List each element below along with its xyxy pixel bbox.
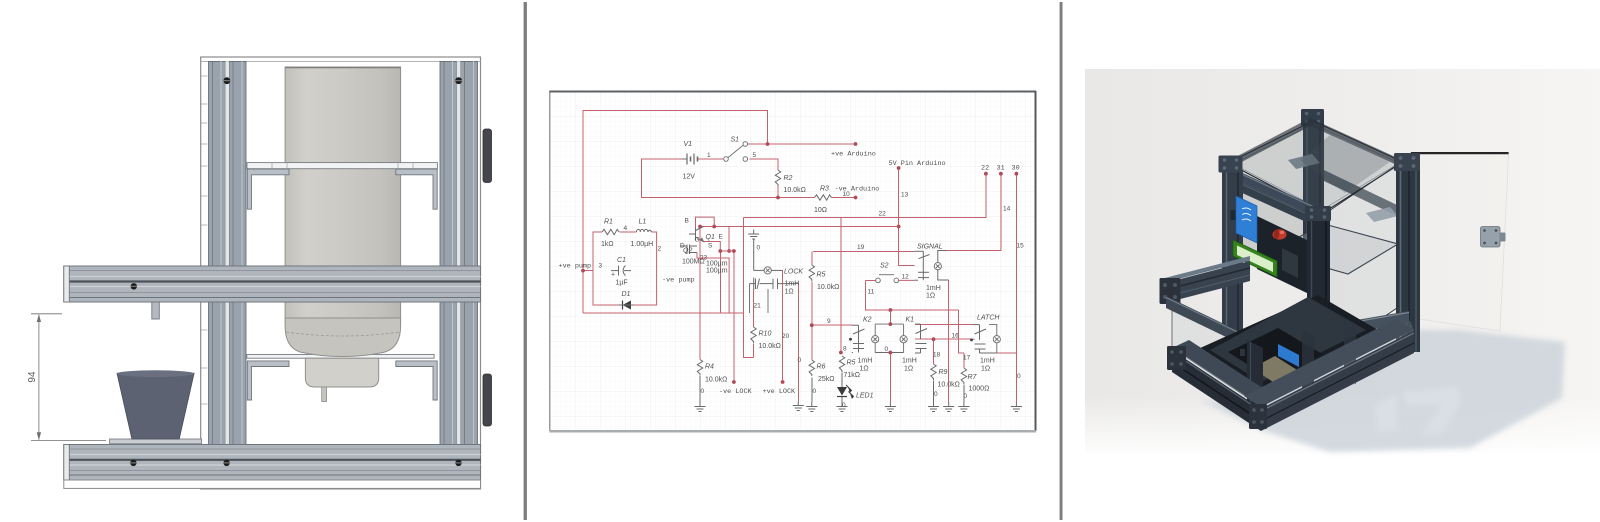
- middle horizontal beam: [64, 266, 481, 302]
- svg-text:LOCK: LOCK: [784, 269, 803, 276]
- wire transistor S/E drops: [697, 242, 734, 314]
- resistor R4 10.0k: [697, 360, 702, 376]
- svg-text:0: 0: [842, 402, 846, 409]
- wire net 8 long drop: [840, 218, 842, 353]
- svg-text:R5: R5: [817, 272, 826, 279]
- relay contact K1: [915, 324, 927, 353]
- svg-text:LED1: LED1: [856, 393, 874, 400]
- wire K2K1 bottom to ground: [889, 353, 891, 403]
- svg-text:+ve LOCK: +ve LOCK: [763, 388, 797, 396]
- watermark 17 in shadow: [1374, 387, 1461, 436]
- wire contact 21 box: [750, 284, 769, 313]
- svg-text:LATCH: LATCH: [977, 315, 1000, 322]
- ground 0 near transistor: [748, 230, 759, 240]
- resistor R6 25k: [809, 360, 814, 376]
- ground R7: [958, 402, 969, 412]
- wire LOCK contact to ground right: [797, 284, 799, 401]
- mid glass shelf: [1270, 224, 1398, 274]
- blue plate with logo: [1236, 196, 1257, 243]
- wire pump loop rectangle: [593, 232, 657, 305]
- svg-text:22: 22: [981, 165, 989, 173]
- wire R2 bottom to net 10: [777, 186, 779, 198]
- glass door pane: [1411, 153, 1509, 331]
- wire transistor base loop: [696, 217, 715, 228]
- svg-text:11: 11: [868, 289, 875, 296]
- svg-text:K1: K1: [906, 317, 915, 324]
- relay contact LATCH: [971, 325, 997, 353]
- wire SIGNAL coil return: [948, 280, 950, 402]
- left column extrusion: [209, 62, 247, 445]
- svg-text:1Ω: 1Ω: [860, 366, 869, 373]
- upper shelf: [247, 163, 437, 169]
- wire K2 K1 box: [875, 324, 903, 352]
- svg-text:S1: S1: [731, 137, 740, 144]
- svg-text:10.0kΩ: 10.0kΩ: [705, 377, 727, 384]
- svg-text:0: 0: [813, 388, 817, 395]
- mid arm extrusion: [1161, 256, 1250, 284]
- svg-text:10.0kΩ: 10.0kΩ: [938, 382, 960, 389]
- ground right of LOCK: [793, 401, 804, 411]
- svg-text:2: 2: [658, 246, 662, 253]
- door hinge connector: [1481, 227, 1501, 248]
- svg-text:SIGNAL: SIGNAL: [917, 244, 943, 251]
- svg-text:22: 22: [879, 211, 887, 218]
- svg-text:R6: R6: [817, 364, 826, 371]
- svg-text:1mH: 1mH: [902, 358, 917, 365]
- relay coil LOCK: [754, 269, 764, 271]
- svg-text:Q1: Q1: [706, 234, 715, 241]
- svg-text:1Ω: 1Ω: [926, 293, 935, 300]
- svg-text:1mH: 1mH: [785, 281, 800, 288]
- svg-text:0: 0: [798, 357, 802, 364]
- svg-text:12: 12: [902, 274, 910, 281]
- wire battery to S1 pin 1: [699, 158, 724, 160]
- base interior hole: [1198, 295, 1378, 390]
- upper left glass wall: [1243, 172, 1315, 290]
- wire LATCH top feed: [915, 324, 973, 326]
- svg-text:15: 15: [1017, 243, 1025, 250]
- ground R9: [928, 402, 939, 412]
- ground SIGNAL return: [943, 402, 954, 412]
- svg-text:0: 0: [885, 346, 889, 353]
- bottom horizontal beam: [64, 445, 481, 481]
- node pin 22 terminal: [984, 172, 988, 176]
- capacitor C1 1uF: [611, 266, 631, 276]
- wire net 11 loop: [865, 280, 958, 310]
- transistor Q2 MOSFET: [680, 245, 697, 255]
- rear post top cap: [1301, 109, 1324, 126]
- cup (funnel): [117, 373, 194, 439]
- wire R5 top from net 19: [811, 251, 813, 265]
- svg-text:-ve pump: -ve pump: [662, 277, 695, 285]
- svg-text:16: 16: [952, 333, 960, 340]
- svg-text:1mH: 1mH: [926, 285, 941, 292]
- upper shelf right bracket: [396, 169, 437, 209]
- left post top cap: [1219, 156, 1243, 173]
- ground LED1: [837, 402, 848, 412]
- junction S1 top: [766, 142, 770, 146]
- diode D1: [623, 301, 632, 310]
- svg-text:10: 10: [843, 191, 851, 198]
- node pin 30 terminal: [1015, 172, 1019, 176]
- machine rear post seen through glass: [1303, 124, 1324, 274]
- svg-text:1Ω: 1Ω: [981, 366, 990, 373]
- relay coil SIGNAL: [938, 251, 947, 263]
- wire net 11 right drop: [959, 310, 964, 353]
- green LCD board: [1233, 240, 1277, 277]
- wire long net to LOCK area: [583, 312, 744, 314]
- svg-text:1: 1: [707, 152, 711, 159]
- relay contact SIGNAL: [915, 251, 930, 280]
- wire net 9 drop to R6: [811, 325, 813, 360]
- relay coil LATCH: [989, 325, 997, 353]
- svg-text:R7: R7: [968, 374, 978, 381]
- base interior dark plate: [1228, 328, 1322, 380]
- wire R6 to ground: [811, 378, 813, 403]
- dimension 94: [31, 314, 106, 441]
- svg-text:4: 4: [624, 225, 628, 232]
- cup tray: [110, 439, 202, 444]
- resistor R9 10.0k: [931, 364, 936, 380]
- svg-text:71kΩ: 71kΩ: [844, 372, 861, 379]
- svg-text:17: 17: [963, 355, 971, 362]
- schematic sheet: [550, 91, 1036, 431]
- lower box top rim left beam: [1166, 296, 1253, 350]
- svg-text:3: 3: [599, 263, 603, 270]
- junction riser b: [727, 249, 731, 253]
- svg-text:+ve pump: +ve pump: [559, 263, 592, 271]
- svg-text:8: 8: [843, 346, 847, 353]
- bottle body: [285, 67, 401, 321]
- base corner caps: [1167, 346, 1186, 370]
- base front-left face: [1172, 350, 1261, 431]
- svg-text:19: 19: [857, 244, 865, 251]
- svg-text:1000Ω: 1000Ω: [969, 386, 990, 393]
- metal tab on mid glass: [1366, 207, 1398, 222]
- node +ve LOCK terminal: [781, 380, 785, 384]
- relay contact LOCK 1mH 1ohm: [750, 278, 799, 291]
- bottom frame outline band: [64, 480, 481, 488]
- svg-text:B: B: [685, 218, 689, 225]
- wire net 20 riser: [744, 218, 754, 358]
- svg-text:R5: R5: [847, 360, 856, 367]
- svg-text:5V Pin Arduino: 5V Pin Arduino: [889, 160, 946, 168]
- bottle nozzle: [305, 358, 378, 387]
- svg-text:L1: L1: [639, 219, 647, 226]
- transistor Q1: [689, 227, 704, 242]
- svg-text:-ve Arduino: -ve Arduino: [835, 186, 880, 194]
- svg-text:30: 30: [1012, 165, 1020, 173]
- wire net 18 drop: [933, 339, 935, 364]
- junction net 9: [810, 323, 814, 327]
- node 5V pin terminal: [897, 166, 901, 170]
- wire net 21 riser: [719, 251, 721, 313]
- svg-text:0: 0: [701, 388, 705, 395]
- junction net 8: [839, 351, 843, 355]
- wire -ve LOCK drop: [733, 251, 735, 381]
- svg-text:+: +: [611, 272, 615, 279]
- node pin 31 terminal: [999, 172, 1003, 176]
- svg-text:E: E: [719, 234, 724, 241]
- svg-text:V1: V1: [684, 141, 693, 148]
- lower shelf left bracket: [247, 361, 289, 400]
- svg-text:14: 14: [1003, 206, 1011, 213]
- junction pump left: [581, 269, 585, 273]
- inductor L1 1.00uH: [637, 229, 652, 232]
- svg-text:100µm: 100µm: [706, 268, 728, 275]
- svg-text:18: 18: [933, 352, 941, 359]
- wire net 31 vertical: [947, 174, 1001, 251]
- lower box glass left: [1172, 307, 1261, 409]
- peg under beam: [152, 302, 160, 319]
- lower box right face inner posts: [1302, 330, 1314, 396]
- left post upper: [1222, 162, 1243, 338]
- svg-text:100µm: 100µm: [706, 261, 728, 268]
- svg-text:94: 94: [27, 371, 38, 383]
- svg-text:0: 0: [757, 245, 761, 252]
- svg-text:+ve Arduino: +ve Arduino: [831, 151, 876, 159]
- front post: [1307, 217, 1330, 372]
- left margin tick marks: [201, 76, 207, 404]
- front post top cap: [1305, 206, 1331, 221]
- svg-text:S: S: [708, 243, 713, 250]
- svg-text:1µF: 1µF: [616, 280, 628, 287]
- junction net 18: [932, 337, 936, 341]
- wire battery loop: [642, 159, 815, 198]
- base ring top face: [1172, 272, 1414, 409]
- resistor R2 10.0k: [775, 170, 780, 186]
- frame outer outline: [201, 57, 481, 489]
- floor shadow: [1200, 330, 1565, 452]
- lower box front corner post: [1247, 340, 1263, 412]
- base blue plate: [1278, 344, 1299, 367]
- junction net11 bottom: [889, 308, 893, 312]
- wire net 22 horizontal: [744, 174, 986, 218]
- relay coil K2: [874, 324, 876, 352]
- resistor R5 10.0k: [809, 265, 814, 281]
- wire net 9 to K2 contact: [812, 324, 852, 326]
- glass door top edge: [1411, 152, 1509, 154]
- wire pump loop lower: [583, 270, 593, 272]
- svg-text:1mH: 1mH: [858, 358, 873, 365]
- svg-text:Q2: Q2: [683, 248, 692, 255]
- svg-text:21: 21: [754, 303, 762, 310]
- wire net 19: [813, 250, 915, 252]
- resistor R10 10.0k: [751, 327, 756, 343]
- top frame back-right beam: [1306, 118, 1402, 165]
- svg-text:0: 0: [964, 393, 968, 400]
- svg-text:13: 13: [901, 192, 909, 199]
- wire net 17 drop: [963, 353, 965, 368]
- background floor/wall: [1085, 69, 1600, 453]
- base interior khaki plate: [1252, 356, 1305, 388]
- column bolts: [224, 77, 231, 84]
- LED LED1: [837, 387, 847, 396]
- svg-text:9: 9: [827, 318, 831, 325]
- svg-text:1Ω: 1Ω: [904, 366, 913, 373]
- wire R3 to -ve Arduino terminal: [832, 197, 856, 199]
- ground R4: [695, 402, 706, 412]
- svg-text:0: 0: [1017, 373, 1021, 380]
- svg-text:R2: R2: [784, 175, 793, 182]
- carriage dark block: [1257, 216, 1311, 295]
- wire S1 pin 5 to R2: [750, 159, 779, 170]
- wire R4 to ground: [699, 376, 701, 402]
- bottle dome bottom: [285, 318, 401, 357]
- wire +ve LOCK drop: [782, 270, 784, 381]
- upper left face rails: [1240, 172, 1315, 216]
- svg-text:10.0kΩ: 10.0kΩ: [784, 187, 806, 194]
- upper shelf left bracket: [247, 169, 289, 209]
- interior back-right girder through glass: [1324, 170, 1397, 216]
- wire net 16: [915, 338, 971, 340]
- node -ve LOCK terminal: [732, 380, 736, 384]
- svg-text:C1: C1: [617, 257, 626, 264]
- svg-text:R10: R10: [759, 331, 772, 338]
- svg-text:R9: R9: [939, 369, 948, 376]
- switch S1: [724, 142, 748, 162]
- svg-text:10.0kΩ: 10.0kΩ: [759, 343, 781, 350]
- svg-text:S2: S2: [880, 263, 889, 270]
- svg-text:G: G: [695, 237, 700, 244]
- resistor R1 1k: [602, 229, 619, 234]
- lower box top rim right beam: [1253, 311, 1409, 350]
- svg-text:R3: R3: [820, 186, 829, 193]
- red roller: [1273, 229, 1287, 239]
- right post top cap: [1394, 153, 1420, 171]
- base front-right face: [1261, 331, 1414, 431]
- relay contact K2: [852, 325, 865, 352]
- top frame back-left beam: [1228, 118, 1318, 165]
- svg-text:K2: K2: [863, 317, 872, 324]
- svg-text:0: 0: [934, 391, 938, 398]
- right post: [1396, 163, 1420, 352]
- lower shelf: [247, 355, 434, 359]
- wire R5 to net 9: [811, 282, 813, 326]
- lower shelf right bracket: [396, 361, 437, 400]
- svg-text:D1: D1: [622, 291, 631, 298]
- svg-text:10Ω: 10Ω: [814, 207, 827, 214]
- svg-text:1.00µH: 1.00µH: [631, 241, 654, 248]
- resistor R7 1000ohm: [961, 368, 966, 384]
- resistor R3 10ohm: [815, 195, 832, 200]
- junction R2 bottom: [776, 196, 780, 200]
- svg-text:1Ω: 1Ω: [785, 289, 794, 296]
- wire R7 to ground: [963, 385, 965, 403]
- svg-text:10.0kΩ: 10.0kΩ: [817, 284, 839, 291]
- svg-text:20: 20: [782, 333, 790, 340]
- svg-text:1kΩ: 1kΩ: [601, 241, 614, 248]
- wire 5V pin Arduino net 13: [899, 168, 915, 266]
- svg-text:31: 31: [997, 165, 1005, 173]
- ground net 30: [1011, 402, 1022, 412]
- svg-text:100MΩ: 100MΩ: [682, 259, 705, 266]
- ground R6: [806, 402, 817, 412]
- node +ve Arduino terminal: [854, 142, 858, 146]
- glass top dark streak: [1300, 135, 1390, 193]
- junction R4 top: [698, 225, 702, 229]
- wire LED1 to ground: [841, 397, 843, 403]
- relay coil K1: [903, 324, 905, 352]
- battery V1 12V: [682, 154, 699, 165]
- wire transistor collector net: [700, 226, 899, 228]
- lower box glass right: [1258, 321, 1414, 409]
- wire K2K1 center drop: [889, 310, 891, 324]
- svg-text:5: 5: [753, 152, 757, 159]
- base interior floor plate: [1210, 297, 1366, 382]
- svg-text:R1: R1: [604, 219, 613, 226]
- wire LATCH coil to net 30: [997, 352, 1017, 354]
- svg-text:-ve LOCK: -ve LOCK: [719, 388, 753, 396]
- wire S2 pole to net 11: [865, 279, 875, 281]
- wire net 30 vertical: [1015, 174, 1017, 402]
- wire net riser b: [728, 227, 730, 252]
- glass top: [1228, 121, 1403, 213]
- switch S2: [876, 275, 899, 283]
- glass right face upper: [1323, 165, 1397, 358]
- wire outer loop left/top: [583, 111, 768, 314]
- wire R9 to ground: [933, 381, 935, 403]
- right column extrusion: [440, 62, 478, 445]
- wire R4 net: [699, 227, 701, 360]
- svg-text:12V: 12V: [683, 174, 696, 181]
- junction net13 x net: [897, 225, 901, 229]
- base ring beams: [1172, 340, 1278, 407]
- svg-text:25kΩ: 25kΩ: [818, 376, 835, 383]
- node -ve Arduino terminal: [854, 196, 858, 200]
- ground K2 K1: [885, 402, 896, 412]
- svg-text:R4: R4: [705, 364, 714, 371]
- wire R5b to LED1: [841, 373, 843, 388]
- resistor R5 71k: [839, 356, 844, 372]
- svg-text:1mH: 1mH: [980, 358, 995, 365]
- wire S1 throw to +ve Arduino node: [748, 143, 856, 145]
- door handles right side: [483, 129, 492, 183]
- wire R10 bottom: [753, 344, 755, 358]
- wire R10 top: [753, 289, 755, 327]
